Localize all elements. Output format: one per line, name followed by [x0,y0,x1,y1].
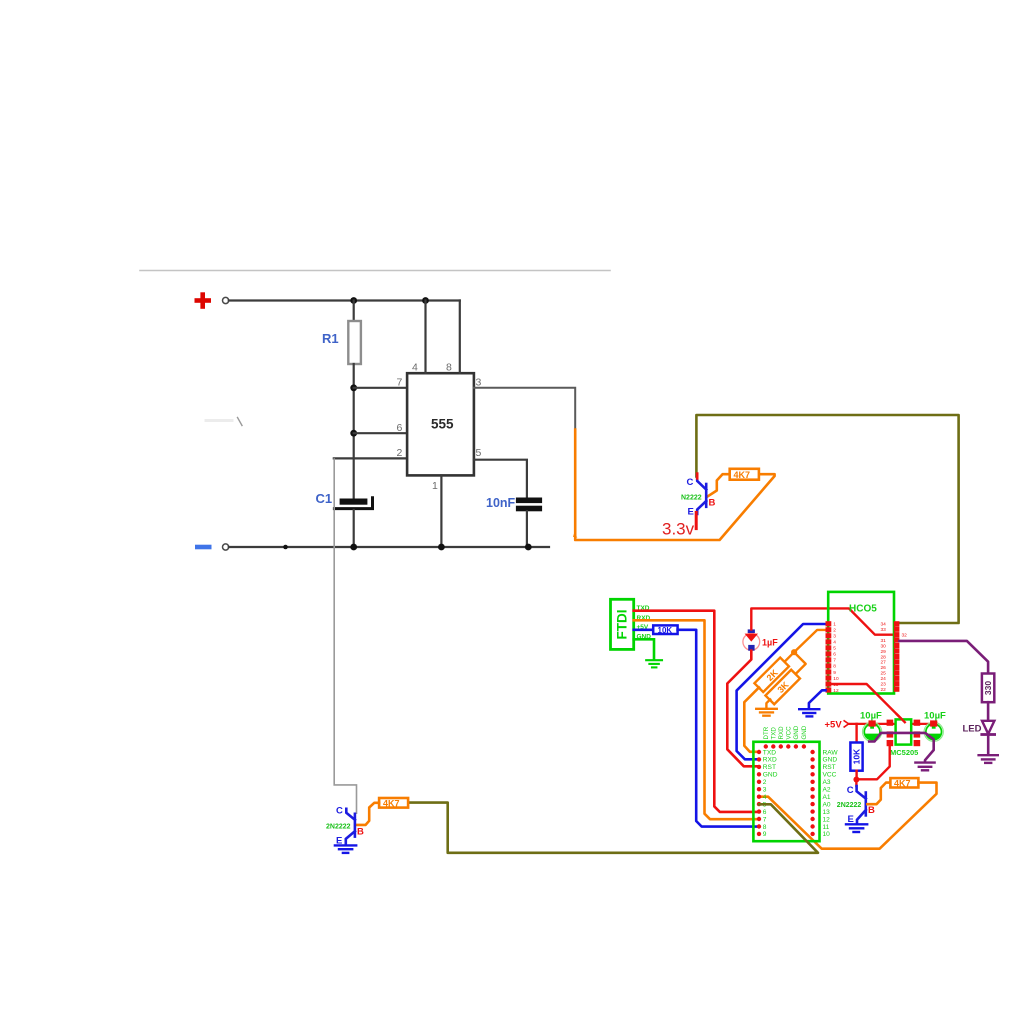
module Arduino Pro Mini body [753,742,819,841]
svg-text:3: 3 [763,787,767,794]
wire orange 2K to Arduino TXD [744,688,759,752]
svg-text:2N2222: 2N2222 [837,802,862,809]
svg-text:9: 9 [833,670,836,676]
wire orange HC05 pin2 to divider node [794,630,825,652]
svg-text:6: 6 [763,809,767,816]
svg-text:GND: GND [823,757,838,764]
svg-text:B: B [709,498,716,509]
svg-text:TXD: TXD [763,749,776,756]
svg-text:RST: RST [763,764,776,771]
svg-text:6: 6 [833,652,836,658]
wire orange node to 3K [794,652,806,674]
wire orange base Q3 to 4K7 [867,783,890,805]
svg-text:28: 28 [880,654,886,660]
resistor R7 10K [850,743,862,771]
wire red FTDI TXD to Arduino pin6 [634,611,759,812]
Arduino left pin pads [757,750,761,836]
node arrow tick orange corner [573,534,577,538]
svg-text:24: 24 [880,676,886,682]
node junction divider [791,649,797,655]
svg-text:27: 27 [880,660,886,666]
transistor Q1 2N2222 [697,475,706,514]
wire pin8 [459,301,461,374]
artifact faint smudge [206,419,232,422]
svg-text:R1: R1 [322,331,339,346]
wire pin6 [354,432,407,434]
Arduino right pin labels [823,749,839,838]
resistor R8 4K7 [890,778,918,787]
ground HC05 blue [799,709,819,716]
minus terminal circle [223,544,229,550]
wire R1 bottom to C1 [353,364,355,499]
wire orange 4K7 to base Q1 [708,474,730,496]
wire orange 4K7 to base Q2 [356,803,379,825]
plus terminal circle [223,297,229,303]
wire orange 4K7 loop to Arduino pin4 [759,783,937,849]
svg-text:10K: 10K [852,748,862,764]
svg-text:26: 26 [880,665,886,671]
module HC05 body [828,592,894,694]
minus terminal label [195,545,212,550]
wire blue HC05 pin1 to Arduino RXD [737,624,826,759]
svg-text:FTDI: FTDI [615,610,630,640]
svg-text:555: 555 [431,417,454,432]
wire grey pin2 to Q2 collector [334,459,356,813]
svg-text:A0: A0 [823,801,831,808]
wire R1 top [353,301,355,322]
svg-text:1µF: 1µF [762,638,778,648]
node red tick collector Q1 [696,474,699,479]
svg-text:GND: GND [763,772,778,779]
svg-text:7: 7 [763,816,767,823]
regulator pin pads [887,720,921,747]
svg-text:25: 25 [880,671,886,677]
svg-text:C: C [687,477,694,488]
Arduino right pin pads [810,750,814,836]
svg-text:32: 32 [902,633,908,639]
svg-text:2: 2 [397,447,403,459]
wire pin4 [424,301,426,374]
wire orange node to 2K [784,652,794,662]
artifact tick mark [238,418,243,426]
wire orange FTDI RXD to Arduino pin7 [634,620,759,819]
svg-text:N2222: N2222 [681,495,702,502]
resistor R1 [348,321,361,364]
node junction pin6 [350,430,357,437]
resistor R6 330 [982,674,994,703]
wire red node to collector Q3 [855,780,857,787]
svg-text:5: 5 [476,447,482,459]
ground Q3 blue [846,824,867,832]
svg-text:10µF: 10µF [924,711,946,722]
capacitor C1 [334,498,372,509]
capacitor 10nF [516,498,542,512]
svg-text:A2: A2 [823,787,831,794]
ground Q2 blue [335,845,356,853]
resistor R2 4K7 [730,469,759,480]
wire blue FTDI +5V to 10K [634,628,654,631]
wire blue 10K to Arduino pin8 [678,630,759,827]
wire purple HC05 pin31 to 330 [899,641,988,674]
svg-text:3.3v: 3.3v [662,520,695,539]
wire orange 555 output to base resistor [575,430,774,541]
HC05 left pin numbers [833,622,839,694]
svg-text:GND: GND [801,725,808,739]
svg-text:C: C [847,785,854,796]
wire pin3 output [474,388,575,430]
resistor R4 2K [754,658,789,693]
svg-text:5: 5 [833,646,836,652]
wire top rail [229,299,460,301]
capacitor C3 1uF [743,629,760,650]
node junction base Q3 [853,777,859,783]
node junction 10nF rail [525,544,532,551]
node junction pin7 [350,384,357,391]
svg-text:4K7: 4K7 [734,470,751,480]
ground FTDI [646,660,662,667]
svg-text:10: 10 [823,831,831,838]
svg-text:MC5205: MC5205 [890,748,918,757]
svg-text:TXD: TXD [771,727,778,740]
node 3.3v emitter lead Q1 [695,512,698,528]
node small junction rail [283,545,288,550]
wire red 10K to node [855,771,857,780]
svg-text:2: 2 [763,779,767,786]
transistor Q2 2N2222 [346,809,355,844]
wire pin1 [440,475,442,547]
capacitor C4 10uF [863,720,882,741]
svg-text:11: 11 [823,824,830,831]
svg-text:B: B [357,826,364,837]
HC05 right pin pads 34-22 [894,621,900,692]
wire red node to regulator enable [856,746,889,779]
svg-text:2N2222: 2N2222 [326,823,351,830]
wire blue HC05 pin12 to ground [809,690,826,708]
svg-text:VCC: VCC [786,726,793,740]
wire purple 330 to LED [987,702,990,721]
svg-text:34: 34 [880,622,886,628]
svg-text:4: 4 [833,640,836,646]
svg-text:8: 8 [763,824,767,831]
svg-text:HCO5: HCO5 [849,604,877,615]
wire pin2 [334,457,407,459]
svg-text:1: 1 [432,480,438,492]
svg-text:C: C [336,806,343,817]
svg-text:7: 7 [833,658,836,664]
plus terminal label [195,292,212,309]
node junction top rail pin4 [422,297,429,304]
svg-text:4: 4 [763,794,767,801]
node junction top rail R1 [350,297,357,304]
wire pin7 [354,387,407,389]
svg-text:13: 13 [823,809,831,816]
wire orange 3K to ground [766,699,770,708]
node +5V arrow [844,721,848,727]
regulator U2 MC5205 body [896,719,912,744]
svg-text:31: 31 [880,638,886,644]
wire olive Q2 output to Arduino pin5 [408,803,818,853]
svg-text:6: 6 [397,422,403,434]
svg-text:23: 23 [880,682,886,688]
svg-text:VCC: VCC [823,772,837,779]
svg-text:10: 10 [833,676,839,682]
wire pin5 [474,460,527,498]
wire red overlay regulator input [897,714,905,722]
svg-text:C1: C1 [316,491,333,506]
Arduino top pin pads [764,744,807,748]
svg-text:A1: A1 [823,794,831,801]
svg-text:DTR: DTR [763,726,770,739]
wire olive collector Q1 loop to HC05 pin34 [696,415,958,623]
svg-text:+5V: +5V [825,720,843,731]
svg-text:8: 8 [833,664,836,670]
svg-text:2: 2 [833,628,836,634]
wire red rail to 10K [855,724,857,743]
resistor R5 3K [765,670,800,705]
svg-text:GND: GND [793,725,800,739]
connector FTDI body [611,599,634,649]
svg-text:8: 8 [446,362,452,374]
svg-text:4K7: 4K7 [383,799,400,809]
op-amp 555 IC body [407,373,474,475]
svg-text:12: 12 [833,688,839,694]
svg-text:RXD: RXD [778,726,785,740]
wire red 1uF top to HC05 pin32 [751,608,894,634]
Arduino left pin labels [763,749,778,838]
svg-text:10K: 10K [658,626,673,635]
HC05 left pin pads 1-12 [826,621,832,692]
svg-text:4: 4 [412,362,418,374]
wire purple LED to ground [987,735,990,755]
svg-text:3: 3 [476,377,482,389]
wire green FTDI GND [634,639,654,659]
wire C1 to rail [353,510,355,547]
svg-text:RAW: RAW [823,749,839,756]
node junction pin1 rail [438,544,445,551]
svg-text:3: 3 [833,634,836,640]
svg-text:1: 1 [833,622,836,628]
svg-text:RXD: RXD [763,757,777,764]
wire bottom rail [229,546,549,548]
wire 10nF to rail [526,511,528,547]
HC05 right pin numbers [880,622,907,693]
svg-text:4K7: 4K7 [894,779,911,789]
svg-text:7: 7 [397,377,403,389]
resistor R3 10K [653,625,677,634]
transistor Q3 2N2222 [857,786,866,823]
ground regulator purple [915,763,934,771]
svg-text:RST: RST [823,764,836,771]
ground divider orange [756,709,777,716]
svg-text:E: E [688,507,694,518]
svg-text:10µF: 10µF [860,711,882,722]
diode LED [982,721,995,735]
wire red HC05 pin11 to regulator input [831,684,905,722]
svg-text:30: 30 [880,643,886,649]
svg-text:330: 330 [983,681,993,695]
Arduino top pin labels DTR TXD RXD VCC GND GND [763,725,808,739]
wire purple regulator bypass to ground [869,733,934,762]
svg-text:LED: LED [963,724,982,735]
svg-text:22: 22 [880,687,886,693]
svg-text:9: 9 [763,831,767,838]
svg-text:12: 12 [823,816,831,823]
separator line [140,270,610,272]
svg-text:29: 29 [880,649,886,655]
ground LED purple [979,755,998,763]
svg-text:33: 33 [880,627,886,633]
capacitor C5 10uF [924,720,943,741]
svg-text:B: B [868,805,875,816]
node junction C1 rail [350,544,357,551]
wire red +5V rail [849,723,934,725]
wire red 1uF bottom to Arduino RST [727,651,759,767]
svg-text:10nF: 10nF [486,496,516,510]
resistor R9 4K7 [379,798,408,808]
svg-text:A3: A3 [823,779,831,786]
